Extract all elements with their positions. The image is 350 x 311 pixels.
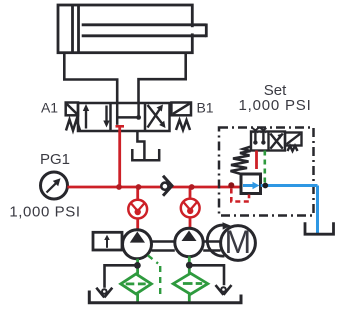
svg-text:1,000 PSI: 1,000 PSI xyxy=(238,97,311,114)
svg-text:PG1: PG1 xyxy=(40,151,70,168)
svg-text:A1: A1 xyxy=(41,100,58,116)
svg-text:M: M xyxy=(224,224,251,260)
svg-text:B1: B1 xyxy=(196,100,213,116)
svg-text:1,000 PSI: 1,000 PSI xyxy=(9,204,80,221)
